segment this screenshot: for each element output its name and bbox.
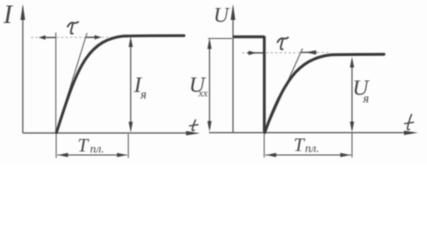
label tau (right) (278, 38, 289, 43)
I axis (vertical) (22, 7, 24, 133)
label tau (left) (68, 22, 79, 27)
T_pl dimension (right) (266, 154, 352, 156)
step drop (thick) (263, 36, 266, 132)
svg-text:U: U (214, 3, 231, 27)
t axis (horizontal, right) (209, 132, 412, 134)
dashed line (right, light) (242, 52, 247, 54)
T_pl dimension (left) (58, 154, 128, 156)
t axis (horizontal) (23, 132, 194, 134)
U_xx top connector (208, 38, 232, 40)
voltage recovery curve (right, thick) (265, 54, 384, 132)
svg-text:пл.: пл. (305, 141, 319, 155)
tau dimension left arrow (43, 37, 56, 39)
svg-text:я: я (140, 87, 147, 102)
step top (thick) (233, 35, 264, 38)
tau dimension right arrow (right plot) (301, 51, 317, 53)
label t (right plot) (407, 115, 411, 130)
tau dimension left arrow (right plot) (247, 52, 263, 54)
dashed asymptote line (light) (31, 37, 39, 39)
svg-text:I: I (3, 0, 14, 29)
label t (left plot) (192, 120, 195, 131)
U_xx dimension line (209, 40, 211, 129)
svg-text:пл.: пл. (90, 142, 104, 156)
U_ya dimension line (351, 60, 353, 130)
svg-text:Т: Т (78, 136, 90, 157)
t axis arrowhead (186, 131, 200, 135)
extension line at curve start (55, 33, 57, 134)
I_ya dimension line (130, 40, 132, 130)
current curve (left, thick) (57, 36, 185, 133)
svg-text:хх: хх (198, 88, 209, 99)
svg-text:я: я (362, 91, 369, 106)
svg-text:Т: Т (294, 135, 306, 156)
tangent line (right) (265, 49, 303, 133)
tangent line (left) (56, 33, 87, 133)
U axis (vertical) (232, 7, 234, 133)
I axis arrowhead (21, 4, 26, 20)
tau dimension right arrow (86, 36, 96, 38)
